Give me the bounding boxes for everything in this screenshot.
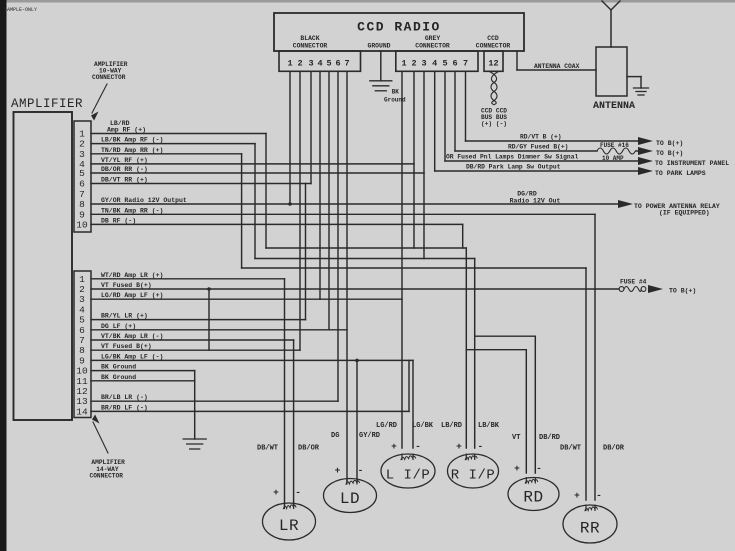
- svg-text:2: 2: [411, 59, 416, 69]
- svg-text:CCD RADIO: CCD RADIO: [357, 20, 441, 35]
- svg-text:DG LF (+): DG LF (+): [101, 323, 136, 330]
- svg-text:TO B(+): TO B(+): [656, 140, 683, 147]
- svg-text:RD: RD: [523, 488, 543, 506]
- svg-text:+: +: [335, 465, 341, 476]
- svg-text:-: -: [415, 441, 421, 452]
- svg-text:DB/RD Park Lamp Sw Output: DB/RD Park Lamp Sw Output: [466, 164, 561, 171]
- svg-text:-: -: [536, 463, 542, 474]
- svg-text:RD/GY Fused B(+): RD/GY Fused B(+): [508, 144, 568, 151]
- svg-text:-: -: [596, 490, 602, 501]
- svg-text:BLACK: BLACK: [300, 35, 319, 42]
- svg-text:(IF EQUIPPED): (IF EQUIPPED): [659, 210, 710, 217]
- svg-text:VT: VT: [512, 434, 520, 442]
- svg-text:LG/RD: LG/RD: [376, 422, 397, 430]
- svg-text:GREY: GREY: [425, 35, 441, 42]
- svg-text:TO INSTRUMENT PANEL: TO INSTRUMENT PANEL: [655, 160, 729, 167]
- svg-text:+: +: [391, 441, 397, 452]
- svg-text:CONNECTOR: CONNECTOR: [415, 43, 450, 50]
- svg-text:DG/RD: DG/RD: [517, 191, 537, 198]
- svg-text:LB/BK: LB/BK: [478, 422, 500, 430]
- svg-text:LG/BK: LG/BK: [412, 422, 434, 430]
- svg-text:-: -: [295, 487, 301, 498]
- svg-text:DB/WT: DB/WT: [560, 445, 581, 453]
- svg-text:+: +: [456, 441, 462, 452]
- svg-text:6: 6: [335, 59, 340, 69]
- svg-text:GROUND: GROUND: [367, 43, 390, 50]
- svg-text:DB/OR RR (-): DB/OR RR (-): [101, 166, 148, 173]
- svg-text:WT/RD Amp LR (+): WT/RD Amp LR (+): [101, 272, 163, 279]
- svg-text:DB/OR: DB/OR: [298, 445, 320, 453]
- svg-text:BR/RD LF (-): BR/RD LF (-): [101, 404, 148, 411]
- svg-text:+: +: [574, 490, 580, 501]
- svg-text:7: 7: [344, 59, 349, 69]
- svg-text:DG: DG: [331, 432, 339, 440]
- svg-text:4: 4: [432, 59, 437, 69]
- svg-text:OR Fused Pnl Lamps Dimmer Sw S: OR Fused Pnl Lamps Dimmer Sw Signal: [446, 154, 578, 161]
- svg-text:3: 3: [308, 59, 313, 69]
- svg-text:TO B(+): TO B(+): [669, 288, 696, 295]
- svg-text:LG/RD Amp LF (+): LG/RD Amp LF (+): [101, 292, 163, 299]
- svg-text:(+) (-): (+) (-): [481, 121, 507, 128]
- svg-text:5: 5: [79, 168, 85, 179]
- svg-text:LD: LD: [340, 490, 360, 508]
- svg-text:TN/BK Amp RR (-): TN/BK Amp RR (-): [101, 207, 163, 214]
- svg-text:GY/OR Radio 12V Output: GY/OR Radio 12V Output: [101, 197, 187, 204]
- svg-text:RR: RR: [580, 520, 600, 538]
- svg-text:R I/P: R I/P: [451, 468, 496, 484]
- svg-text:Ground: Ground: [384, 97, 406, 104]
- svg-text:CONNECTOR: CONNECTOR: [476, 43, 511, 50]
- svg-text:VT/BK Amp LR (-): VT/BK Amp LR (-): [101, 333, 163, 340]
- svg-text:DB/RD: DB/RD: [539, 434, 560, 442]
- svg-text:SAMPLE-ONLY: SAMPLE-ONLY: [4, 7, 37, 13]
- svg-text:TN/RD Amp RR (+): TN/RD Amp RR (+): [101, 147, 163, 154]
- svg-text:+: +: [273, 487, 279, 498]
- svg-text:7: 7: [463, 59, 468, 69]
- svg-text:TO PARK LAMPS: TO PARK LAMPS: [655, 170, 706, 177]
- svg-text:14: 14: [76, 406, 88, 417]
- svg-text:5: 5: [326, 59, 331, 69]
- svg-text:CCD: CCD: [487, 35, 499, 42]
- svg-text:5: 5: [442, 59, 447, 69]
- svg-text:LR: LR: [279, 517, 299, 535]
- svg-text:+: +: [514, 463, 520, 474]
- svg-text:10: 10: [76, 219, 88, 230]
- svg-text:BR/YL LR (+): BR/YL LR (+): [101, 313, 148, 320]
- svg-text:6: 6: [79, 179, 85, 190]
- svg-text:GY/RD: GY/RD: [359, 432, 380, 440]
- svg-text:3: 3: [421, 59, 426, 69]
- svg-text:6: 6: [452, 59, 457, 69]
- svg-text:VT Fused B(+): VT Fused B(+): [101, 282, 152, 289]
- svg-text:Amp RF (+): Amp RF (+): [107, 127, 146, 134]
- svg-text:10 AMP: 10 AMP: [602, 155, 624, 162]
- svg-text:-: -: [358, 465, 364, 476]
- svg-text:VT/YL RF (+): VT/YL RF (+): [101, 157, 148, 164]
- svg-text:CONNECTOR: CONNECTOR: [90, 473, 124, 480]
- svg-text:LG/BK Amp LF (-): LG/BK Amp LF (-): [101, 353, 163, 360]
- svg-text:DB/VT RR (+): DB/VT RR (+): [101, 177, 148, 184]
- svg-text:FUSE #16: FUSE #16: [600, 142, 629, 149]
- svg-text:DB RF (-): DB RF (-): [101, 217, 136, 224]
- svg-text:CONNECTOR: CONNECTOR: [92, 74, 126, 81]
- svg-text:ANTENNA: ANTENNA: [593, 101, 635, 112]
- svg-text:BK: BK: [392, 89, 400, 96]
- svg-text:DB/WT: DB/WT: [257, 445, 278, 453]
- svg-text:2: 2: [297, 59, 302, 69]
- svg-text:BK Ground: BK Ground: [101, 374, 136, 381]
- svg-text:LB/BK Amp RF (-): LB/BK Amp RF (-): [101, 137, 163, 144]
- svg-text:1: 1: [401, 59, 406, 69]
- svg-text:DB/OR: DB/OR: [603, 445, 625, 453]
- svg-text:VT Fused B(+): VT Fused B(+): [101, 343, 152, 350]
- svg-text:Radio 12V Out: Radio 12V Out: [510, 198, 561, 205]
- svg-text:L I/P: L I/P: [386, 468, 431, 484]
- svg-text:1: 1: [287, 59, 292, 69]
- svg-text:FUSE #4: FUSE #4: [620, 279, 647, 286]
- svg-text:RD/VT B (+): RD/VT B (+): [520, 134, 562, 141]
- svg-text:BK Ground: BK Ground: [101, 364, 136, 371]
- svg-text:CONNECTOR: CONNECTOR: [293, 43, 328, 50]
- svg-text:ANTENNA COAX: ANTENNA COAX: [534, 63, 580, 70]
- svg-text:4: 4: [317, 59, 322, 69]
- svg-text:BR/LB LR (-): BR/LB LR (-): [101, 394, 148, 401]
- svg-text:AMPLIFIER: AMPLIFIER: [11, 97, 83, 111]
- svg-text:TO B(+): TO B(+): [656, 150, 683, 157]
- svg-text:LB/RD: LB/RD: [441, 422, 462, 430]
- svg-text:-: -: [478, 441, 484, 452]
- svg-text:12: 12: [488, 59, 498, 69]
